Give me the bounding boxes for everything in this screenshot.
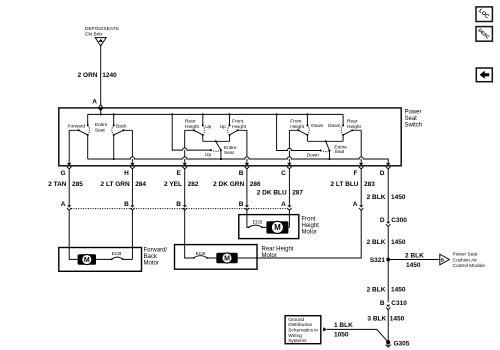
wire ECB to M Front <box>263 226 290 228</box>
svg-text:287: 287 <box>292 189 303 196</box>
connector on wire F <box>359 205 363 210</box>
svg-text:Forward/: Forward/ <box>144 248 168 254</box>
wire F inside box <box>360 130 362 162</box>
wire feed drop to Up switch <box>172 114 211 150</box>
switch Back rail <box>113 114 115 159</box>
wire G inside box <box>68 130 70 162</box>
svg-text:1240: 1240 <box>102 72 117 79</box>
node pin A junction <box>100 113 102 115</box>
svg-text:2 BLK: 2 BLK <box>367 239 386 246</box>
svg-text:Ground: Ground <box>288 317 304 323</box>
wire F below box <box>360 169 362 205</box>
svg-text:A: A <box>281 201 286 208</box>
wire pin A drop <box>100 111 102 114</box>
svg-text:1450: 1450 <box>390 315 405 322</box>
connector on wire E <box>183 205 187 210</box>
svg-text:C310: C310 <box>391 300 407 307</box>
pin letters <box>60 170 384 177</box>
label 2 YEL 282 <box>164 181 199 188</box>
pin B exit <box>245 163 250 169</box>
svg-text:1450: 1450 <box>406 262 421 269</box>
svg-text:2 BLK: 2 BLK <box>405 253 424 260</box>
label 2 DK BLU 287 <box>257 189 304 196</box>
svg-text:2 BLK: 2 BLK <box>367 194 386 201</box>
svg-text:G: G <box>60 170 65 177</box>
svg-text:C: C <box>281 170 286 177</box>
label 1 BLK 1050 <box>334 322 353 339</box>
feed bus <box>88 113 343 115</box>
svg-text:A: A <box>92 98 97 105</box>
svg-text:282: 282 <box>188 181 199 188</box>
svg-text:Schematics in: Schematics in <box>288 328 318 334</box>
wire C to motor <box>288 210 290 227</box>
label 2 LT GRN 284 <box>101 181 147 188</box>
wire H below box <box>131 169 133 205</box>
switch Entire Seat Up blade <box>216 141 221 150</box>
svg-text:1050: 1050 <box>334 332 349 339</box>
svg-text:2 ORN: 2 ORN <box>78 72 98 79</box>
switch Front Height Up blade <box>230 130 247 135</box>
svg-text:286: 286 <box>250 181 261 188</box>
svg-text:C300: C300 <box>391 217 407 224</box>
Rear Height Motor box <box>175 245 258 270</box>
svg-text:Ckt Brkr: Ckt Brkr <box>85 32 103 38</box>
svg-text:Height: Height <box>347 124 362 130</box>
label 3 BLK 1450 <box>367 315 404 322</box>
svg-text:Rear: Rear <box>347 119 358 125</box>
svg-text:Height: Height <box>185 124 200 130</box>
ECB Front Height <box>248 219 263 228</box>
ground G305 <box>385 340 410 348</box>
Forward/Back Motor box <box>59 248 142 272</box>
motor M Rear Height <box>216 253 237 264</box>
wire D below box <box>387 169 389 221</box>
pin G exit <box>67 163 72 169</box>
svg-text:M: M <box>224 256 230 263</box>
motor M Forward/Back <box>78 254 96 265</box>
label 2 BLK 1450 top <box>367 194 406 201</box>
connector C310 <box>380 300 407 310</box>
ECB Forward/Back <box>111 251 124 260</box>
svg-text:283: 283 <box>364 181 375 188</box>
svg-text:1450: 1450 <box>391 287 406 294</box>
svg-text:2 DK GRN: 2 DK GRN <box>213 181 244 188</box>
wire E to motor <box>185 210 194 258</box>
svg-text:285: 285 <box>72 181 83 188</box>
wire H to motor <box>131 210 133 259</box>
wire breaker to pin A <box>100 46 102 104</box>
svg-text:Motor: Motor <box>302 229 317 235</box>
pin A connector symbols <box>98 105 103 112</box>
wire M to ECB <box>96 258 132 260</box>
wire H inside box <box>131 130 133 162</box>
svg-text:Rear Height: Rear Height <box>262 247 294 253</box>
splice S321 <box>370 257 390 264</box>
svg-text:Switch: Switch <box>405 123 423 129</box>
switch Rear Height Up rail <box>202 114 204 141</box>
switch Entire Seat Down blade <box>326 141 330 150</box>
ground bus <box>88 157 389 163</box>
svg-text:1450: 1450 <box>391 239 406 246</box>
wire C below box <box>288 169 290 205</box>
node feed drop right <box>276 113 278 115</box>
wire B inside box <box>246 130 248 162</box>
label 2 LT BLU 283 <box>330 181 375 188</box>
button LOC <box>476 7 492 22</box>
svg-text:Motor: Motor <box>262 253 277 259</box>
svg-text:Height: Height <box>290 124 305 130</box>
svg-text:Height: Height <box>232 124 247 130</box>
label 2 BLK 1450 branch <box>405 253 424 270</box>
wire mid sub-box bottom <box>203 140 230 142</box>
svg-text:2 YEL: 2 YEL <box>164 181 182 188</box>
connector C300 <box>380 217 407 227</box>
svg-text:S321: S321 <box>370 257 386 264</box>
svg-text:Front: Front <box>302 216 316 222</box>
connector on wire B <box>245 205 249 210</box>
svg-text:2 DK BLU: 2 DK BLU <box>257 189 287 196</box>
motor M Front Height <box>266 221 288 233</box>
switch Rear Height Up blade <box>185 130 203 135</box>
label 2 DK GRN 286 <box>213 181 261 188</box>
svg-text:284: 284 <box>135 181 146 188</box>
label 2 BLK 1450 mid <box>367 239 406 246</box>
svg-text:2 TAN: 2 TAN <box>48 181 67 188</box>
svg-text:ECB: ECB <box>253 219 263 225</box>
button DESC <box>476 27 492 42</box>
svg-text:Back: Back <box>116 124 127 130</box>
connector on wire H <box>130 205 134 210</box>
pin C exit <box>287 163 292 169</box>
svg-text:D: D <box>380 170 385 177</box>
svg-text:1450: 1450 <box>391 194 406 201</box>
Front Height Motor box <box>239 215 299 239</box>
svg-text:Seat: Seat <box>95 127 106 133</box>
svg-text:B: B <box>176 201 181 208</box>
circuit breaker DEFOG/SEATS Ckt Brkr <box>85 26 119 46</box>
svg-text:Forward: Forward <box>68 124 86 130</box>
wire B below box <box>246 169 248 205</box>
label 2 ORN 1240 <box>78 72 118 79</box>
svg-text:Cushion Air: Cushion Air <box>453 257 478 263</box>
svg-text:G305: G305 <box>394 340 410 347</box>
switch Front Height Down rail <box>306 114 308 141</box>
svg-text:Seat: Seat <box>224 150 235 156</box>
svg-text:H: H <box>124 170 129 177</box>
wire G to motor <box>69 210 77 259</box>
wire C310 to G305 <box>387 310 389 343</box>
label Entire Seat left <box>95 122 108 133</box>
svg-text:Distribution: Distribution <box>288 322 312 328</box>
svg-text:B: B <box>239 201 244 208</box>
wire F to motor <box>257 210 361 258</box>
svg-text:Entire: Entire <box>95 122 108 128</box>
svg-text:Front: Front <box>232 119 244 125</box>
svg-text:Power Seat: Power Seat <box>453 251 478 257</box>
svg-text:2 LT GRN: 2 LT GRN <box>101 181 130 188</box>
switch Front Height Down blade <box>289 130 307 135</box>
svg-text:Down: Down <box>328 123 341 129</box>
wire right sub-box bottom <box>307 140 343 142</box>
Power Seat Switch box <box>59 108 401 166</box>
svg-text:Control Module: Control Module <box>453 263 486 269</box>
node feed drop left <box>171 113 173 115</box>
svg-text:1 BLK: 1 BLK <box>334 322 353 329</box>
switch Forward blade <box>69 130 88 135</box>
pin D exit <box>386 163 391 169</box>
module arrow Power Seat Cushion Air Control Module <box>440 251 486 269</box>
svg-text:B: B <box>239 170 244 177</box>
button back arrow <box>476 68 492 82</box>
svg-text:2 LT BLU: 2 LT BLU <box>330 181 358 188</box>
svg-text:Back: Back <box>144 254 158 260</box>
wire feed drop to Down switch <box>277 114 321 150</box>
ECB Rear Height <box>193 251 208 259</box>
svg-text:Down: Down <box>311 123 324 129</box>
connector row letters <box>61 201 358 208</box>
svg-text:2 BLK: 2 BLK <box>367 287 386 294</box>
svg-text:Up: Up <box>205 152 211 158</box>
dashed connector line <box>71 208 288 210</box>
svg-text:Systems: Systems <box>288 338 307 344</box>
svg-text:Rear: Rear <box>185 119 196 125</box>
svg-text:D: D <box>380 217 385 224</box>
svg-text:A: A <box>353 201 358 208</box>
svg-text:A: A <box>61 201 66 208</box>
svg-text:Up: Up <box>205 124 211 130</box>
svg-text:ECB: ECB <box>112 251 122 257</box>
svg-text:F: F <box>354 170 358 177</box>
Ground Distribution reference box <box>285 316 321 344</box>
switch Forward rail <box>87 114 89 159</box>
wire ground distribution to G305 <box>323 327 388 342</box>
pin E exit <box>182 163 187 169</box>
svg-text:Down: Down <box>307 153 320 159</box>
svg-text:B: B <box>124 201 129 208</box>
svg-text:Motor: Motor <box>144 261 159 267</box>
wire E below box <box>184 169 186 205</box>
switch Rear Height Down blade <box>343 130 361 135</box>
svg-text:3 BLK: 3 BLK <box>367 315 386 322</box>
wire S321 to module <box>390 259 440 261</box>
svg-text:DEFOG/SEATS: DEFOG/SEATS <box>85 26 119 32</box>
svg-text:Seat: Seat <box>405 116 418 122</box>
svg-text:Height: Height <box>302 223 320 229</box>
pin H exit <box>130 163 135 169</box>
svg-text:Seat: Seat <box>334 149 345 155</box>
switch Back blade <box>114 130 133 135</box>
switch Rear Height Down rail <box>342 114 344 141</box>
svg-text:E: E <box>177 170 182 177</box>
wire E inside box <box>184 130 186 162</box>
wire D C300 to S321 <box>387 227 389 303</box>
label Power Seat Switch <box>405 110 423 129</box>
wire ECB to M <box>208 257 258 259</box>
wire C inside box <box>288 130 290 162</box>
svg-text:Up: Up <box>220 124 226 130</box>
label 2 TAN 285 <box>48 181 83 188</box>
wire G below box <box>68 169 70 205</box>
wire B to motor <box>247 210 248 227</box>
svg-text:M: M <box>84 257 90 264</box>
svg-text:B: B <box>441 257 444 262</box>
svg-text:Power: Power <box>405 110 422 116</box>
switch Front Height Up rail <box>229 114 231 141</box>
svg-text:M: M <box>274 223 281 232</box>
svg-text:Wiring: Wiring <box>288 333 302 339</box>
pin F exit <box>359 163 364 169</box>
svg-text:B: B <box>380 300 385 307</box>
connector on wire C <box>287 205 291 210</box>
label 2 BLK 1450 below S321 <box>367 287 406 294</box>
svg-text:Front: Front <box>290 119 302 125</box>
connector on wire G <box>67 205 71 210</box>
